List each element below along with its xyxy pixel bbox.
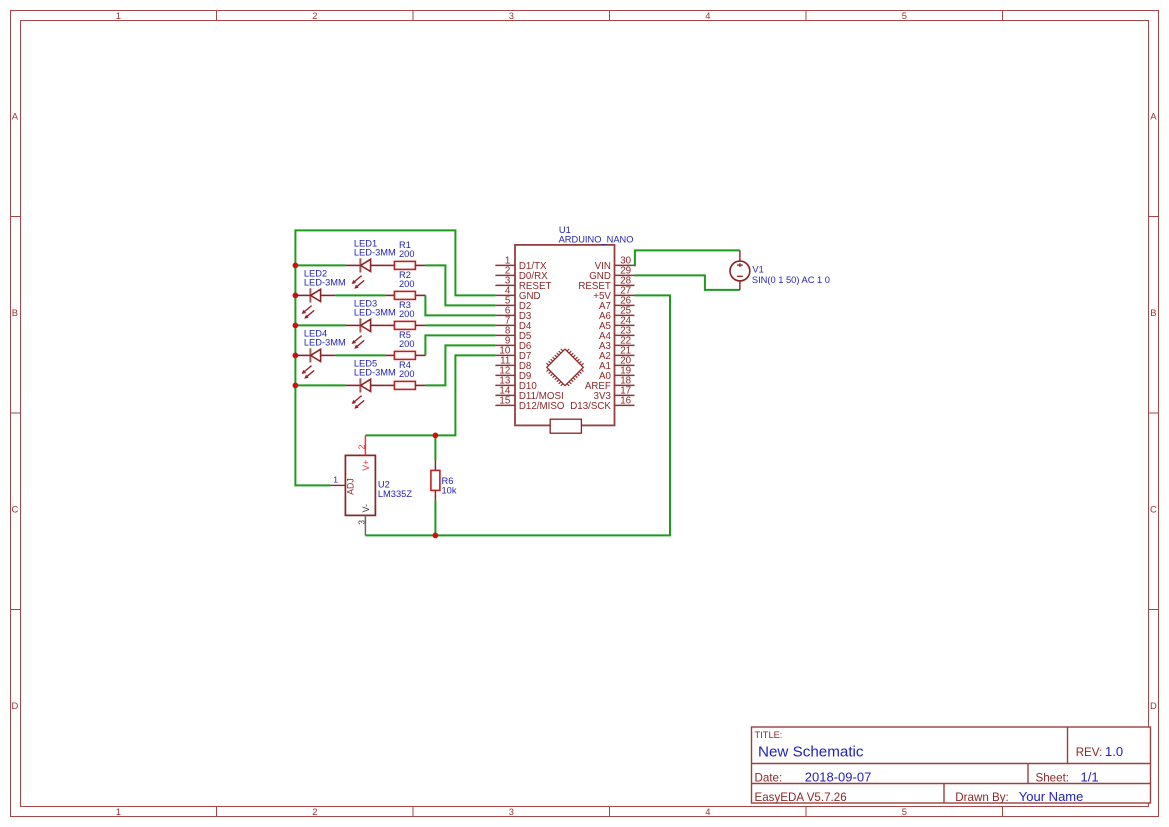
resistor R3 200 [385,321,425,329]
svg-text:200: 200 [399,279,415,289]
svg-text:4: 4 [705,806,710,817]
svg-text:U2: U2 [378,480,390,490]
resistor R1 200 [385,261,425,269]
resistor R4 200 [385,381,425,389]
svg-text:Sheet:: Sheet: [1036,771,1070,784]
wire LED1 anode row [295,264,345,266]
junction LED bus row 2 [293,293,299,299]
svg-text:LED-3MM: LED-3MM [304,277,346,287]
resistor R6 10k [431,460,440,500]
svg-text:5: 5 [902,806,907,817]
svg-text:D12/MISO: D12/MISO [519,401,565,412]
junction LED bus row 4 [293,353,299,359]
svg-text:2: 2 [357,444,367,449]
svg-text:Date:: Date: [755,771,783,784]
LED LED1 (LED-3MM) [345,258,385,289]
LED LED3 (LED-3MM) [345,318,385,349]
svg-text:Drawn By:: Drawn By: [955,791,1008,804]
svg-text:LED-3MM: LED-3MM [354,307,396,317]
resistor R5 200 [385,351,425,359]
svg-text:D: D [1150,700,1157,711]
wire LED5 anode row [295,384,345,386]
svg-text:200: 200 [399,249,415,259]
svg-text:1: 1 [116,10,121,21]
svg-text:C: C [1150,504,1157,515]
svg-text:B: B [1150,307,1156,318]
svg-text:200: 200 [399,369,415,379]
svg-text:D: D [12,700,19,711]
svg-text:TITLE:: TITLE: [755,730,783,740]
svg-text:D13/SCK: D13/SCK [570,401,611,412]
junction LED bus row 1 [293,263,299,269]
wire LED2 to R2 [335,294,385,296]
svg-text:4: 4 [705,10,710,21]
svg-text:U1: U1 [559,225,571,235]
svg-text:2: 2 [312,10,317,21]
svg-text:200: 200 [399,309,415,319]
LED LED5 (LED-3MM) [345,378,385,409]
svg-text:16: 16 [620,396,631,407]
svg-text:A: A [1150,111,1157,122]
wire R4 to U1 pin9 D6 [425,345,495,385]
svg-text:SIN(0 1 50) AC 1 0: SIN(0 1 50) AC 1 0 [752,275,830,285]
svg-text:5: 5 [902,10,907,21]
LED LED2 (LED-3MM) [295,288,335,319]
svg-text:A: A [12,111,19,122]
wire U1 pin10 D7 to R6 top and U2 pin2 [365,355,495,435]
svg-text:2: 2 [312,806,317,817]
svg-text:3: 3 [509,806,514,817]
svg-text:V1: V1 [752,265,763,275]
svg-text:1.0: 1.0 [1105,744,1123,759]
svg-text:10k: 10k [442,485,457,495]
wire U1 pin30 VIN to V1 plus [635,250,740,265]
svg-text:1: 1 [116,806,121,817]
voltage source V1 [730,250,750,290]
wire U1 pin29 GND to V1 minus [635,275,740,290]
wire LED4 to R5 [335,354,385,356]
wire R2 to U1 pin6 D3 [425,295,495,315]
svg-text:REV:: REV: [1076,746,1103,759]
svg-text:Your Name: Your Name [1019,789,1084,804]
svg-text:LED-3MM: LED-3MM [354,247,396,257]
wire GND net: U1 pin4 to top rail and left LED bus down to U2 pin1 [295,230,495,485]
svg-text:EasyEDA V5.7.26: EasyEDA V5.7.26 [755,791,847,804]
junction LED bus row 5 [293,383,299,389]
svg-text:LM335Z: LM335Z [378,489,412,499]
svg-text:3: 3 [357,520,367,525]
svg-text:V-: V- [361,504,371,512]
IC U2 LM335Z body and pins [330,435,375,535]
svg-text:LED-3MM: LED-3MM [304,337,346,347]
wire R1 to U1 pin5 D2 [425,265,495,305]
wire R3 to U1 pin7 D4 [425,324,495,326]
wire R6 bottom stub [434,500,436,535]
svg-text:1: 1 [333,474,338,484]
svg-text:V+: V+ [361,460,371,471]
junction LED bus row 3 [293,323,299,329]
wire LED3 anode row [295,324,345,326]
junction R6 bottom node [433,533,439,539]
title block frame [752,727,1151,803]
svg-text:1/1: 1/1 [1081,769,1099,784]
svg-text:LED-3MM: LED-3MM [354,367,396,377]
svg-text:3: 3 [509,10,514,21]
wire bottom rail U2 pin3 to U1 pin27 +5V [365,295,670,535]
IC U1 ARDUINO_NANO (pins 1-30) [495,245,634,433]
svg-text:15: 15 [499,396,510,407]
svg-text:ADJ: ADJ [346,478,356,495]
wire R6 top stub [434,435,436,460]
svg-text:C: C [12,504,19,515]
svg-text:B: B [12,307,18,318]
junction R6 top node [433,433,439,439]
svg-text:New Schematic: New Schematic [758,744,864,761]
svg-text:2018-09-07: 2018-09-07 [805,769,872,784]
LED LED4 (LED-3MM) [295,348,335,379]
wire R5 to U1 pin8 D5 [425,335,495,355]
svg-text:ARDUINO_NANO: ARDUINO_NANO [559,234,634,244]
resistor R2 200 [385,291,425,299]
svg-text:200: 200 [399,339,415,349]
